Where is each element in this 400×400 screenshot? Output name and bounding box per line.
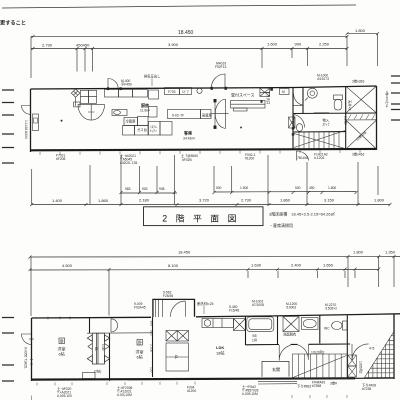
svg-text:1.630: 1.630: [251, 263, 262, 268]
svg-text:1.600: 1.600: [267, 42, 278, 47]
svg-text:F26/45: F26/45: [163, 294, 173, 298]
svg-text:2.180: 2.180: [139, 198, 150, 203]
kitchen counter: [202, 319, 246, 331]
svg-text:2.730: 2.730: [241, 198, 252, 203]
top rule line: [2, 5, 356, 8]
svg-text:1.16B: 1.16B: [344, 116, 348, 125]
svg-text:1.350: 1.350: [150, 344, 154, 352]
svg-text:B5: B5: [253, 334, 257, 338]
outer top wall left section: [32, 316, 152, 319]
left L extension: [31, 169, 33, 205]
svg-text:1坪: 1坪: [252, 338, 258, 343]
svg-text:1.860: 1.860: [280, 198, 291, 203]
stairs bottom plan: [292, 354, 347, 378]
toilet room door: [314, 112, 329, 114]
corridor door arcs: [293, 94, 304, 132]
outer left wall: [30, 89, 32, 152]
svg-text:#7/1008: #7/1008: [252, 303, 264, 307]
svg-text:18.450: 18.450: [178, 30, 194, 36]
bottom wall hatch ticks: [40, 150, 360, 155]
svg-text:下り#5B2: 下り#5B2: [297, 384, 311, 389]
svg-text:3.720: 3.720: [199, 198, 210, 203]
svg-text:3巻x463土6a: 3巻x463土6a: [385, 91, 389, 108]
X-brace top right: [346, 86, 377, 113]
room1 name plate: [59, 338, 65, 344]
closet room1: [87, 333, 153, 364]
dim labels top: [42, 28, 366, 48]
column dots top plan: [61, 120, 63, 122]
svg-text:500: 500: [295, 186, 301, 190]
svg-text:ｷｯﾁﾝ: ｷｯﾁﾝ: [150, 128, 157, 133]
middle closet with X cells: [166, 331, 189, 372]
svg-text:1.350: 1.350: [385, 250, 396, 255]
svg-text:3巻#: 3巻#: [330, 381, 337, 386]
svg-text:更すること: 更すること: [0, 19, 26, 27]
svg-text:8.100: 8.100: [168, 263, 179, 268]
svg-text:卧: 卧: [60, 338, 64, 344]
svg-text:4/15173: 4/15173: [317, 77, 329, 81]
svg-text:6帖: 6帖: [137, 354, 143, 360]
washbasin circle: [305, 88, 343, 110]
reception swing lens: [215, 99, 225, 129]
right room door arc: [352, 344, 369, 361]
svg-text:2.250: 2.250: [319, 42, 330, 47]
window ticks top wall left section: [48, 316, 70, 319]
outer right wall: [376, 86, 378, 150]
window marks left wall: [30, 360, 33, 365]
segment dim line: [31, 48, 347, 50]
svg-text:洗面脱衣: 洗面脱衣: [283, 332, 297, 337]
porch inner dividers: [156, 299, 186, 317]
svg-text:排気圧出し: 排気圧出し: [144, 74, 160, 79]
svg-text:卧: 卧: [138, 339, 142, 345]
fridge boxes right column: [124, 118, 138, 126]
svg-text:1.650: 1.650: [323, 263, 334, 268]
svg-text:2階平面図: 2階平面図: [162, 214, 245, 224]
svg-text:平F450: 平F450: [121, 83, 132, 87]
svg-text:#-00|.10M: #-00|.10M: [117, 393, 132, 397]
svg-text:/10003: /10003: [286, 306, 296, 310]
svg-text:450450: 450450: [76, 43, 90, 48]
svg-text:泉蔵庫: 泉蔵庫: [202, 113, 213, 118]
svg-text:CL: CL: [174, 355, 178, 359]
svg-text:450: 450: [309, 186, 315, 190]
porch protrusion: [153, 299, 195, 317]
svg-text:F703: F703: [168, 90, 176, 94]
svg-text:150: 150: [150, 367, 154, 373]
reception counter: [212, 88, 290, 129]
outer top wall: [31, 86, 377, 89]
svg-text:1.860: 1.860: [98, 198, 109, 203]
svg-text:9-03･7F: 9-03･7F: [172, 114, 184, 118]
svg-text:983: 983: [125, 187, 131, 191]
lower middle ticks: [30, 203, 391, 206]
outer right wall: [393, 314, 395, 379]
outer top wall right section: [196, 314, 400, 317]
X-brace bottom right: [346, 114, 377, 149]
svg-text:2,730: 2,730: [42, 43, 53, 48]
total dim line 18.450: [31, 35, 347, 37]
svg-text:#1200: #1200: [245, 157, 254, 161]
exterior door arc bottom: [297, 151, 309, 161]
svg-text:3巻x463: 3巻x463: [352, 152, 364, 157]
svg-text:920: 920: [150, 330, 154, 336]
svg-text:4'-5: 4'-5: [369, 347, 375, 351]
bench box at bottom wall room1: [83, 373, 96, 379]
svg-text:下り天井: 下り天井: [266, 91, 271, 105]
svg-text:#7238: #7238: [362, 387, 371, 391]
svg-text:3.900: 3.900: [168, 42, 179, 47]
kitchen left column equipment: [149, 88, 212, 136]
svg-text:#F02B: #F02B: [182, 158, 193, 162]
bottom wall hatch ticks bottom plan: [32, 382, 348, 400]
svg-text:2.400: 2.400: [291, 263, 302, 268]
svg-text:#-005.10M: #-005.10M: [242, 392, 258, 396]
svg-text:3階床面積 18.45×3.5-2.15=64.26㎡: 3階床面積 18.45×3.5-2.15=64.26㎡: [269, 211, 335, 217]
svg-text:18帖: 18帖: [216, 350, 224, 356]
svg-text:6帖: 6帖: [59, 351, 65, 357]
kitchen top counters: [81, 90, 89, 96]
svg-text:客席: 客席: [183, 130, 192, 136]
svg-text:1.400: 1.400: [52, 198, 63, 203]
door arc on top wall left (swing outside): [108, 74, 225, 89]
svg-text:断熱材t=25: 断熱材t=25: [197, 301, 214, 306]
svg-text:11.6m²: 11.6m²: [140, 109, 151, 113]
WC: [332, 321, 347, 330]
washer pan X box: [234, 319, 246, 331]
svg-text:900: 900: [295, 42, 302, 47]
svg-text:#-1204: #-1204: [314, 156, 324, 160]
svg-text:F92F13: F92F13: [215, 65, 227, 69]
svg-text:4.500: 4.500: [62, 263, 73, 268]
interior walls bottom plan: [90, 315, 351, 381]
svg-text:1.800: 1.800: [328, 186, 336, 190]
sink with oval: [112, 110, 127, 116]
extension ticks from plan bottom: [121, 155, 175, 205]
left small cabinet: [33, 114, 39, 131]
svg-text:1ﾄﾞｱ: 1ﾄﾞｱ: [182, 89, 189, 94]
dim ticks upper: [32, 32, 380, 38]
svg-text:天井×2: 天井×2: [348, 100, 353, 111]
small box with X on wall: [289, 117, 296, 128]
stepped stair grid bottom right: [365, 331, 395, 378]
boxes right of entry: [260, 88, 270, 96]
bathroom walls: [246, 316, 278, 345]
upper middle dim line: [121, 192, 356, 194]
kitchen island: rotated square with X: [71, 89, 148, 135]
genkan step outline: [262, 361, 289, 377]
left entry door arc: [22, 106, 31, 115]
toilet: [334, 95, 343, 100]
room1 door arc (left wall, swings out): [21, 334, 34, 344]
wall boxes along top: [165, 88, 180, 95]
middle dim labels: [52, 186, 385, 203]
right edge marks: [391, 76, 400, 120]
svg-text:900: 900: [150, 321, 154, 327]
svg-text:3.150: 3.150: [324, 198, 335, 203]
room2 double door arcs top: [111, 319, 118, 332]
svg-text:18.450: 18.450: [178, 250, 191, 255]
svg-text:・客席清掃用: ・客席清掃用: [269, 222, 293, 228]
bathtub horizontal: [247, 317, 274, 332]
svg-text:F15/45: F15/45: [229, 309, 239, 313]
svg-text:CL: CL: [94, 347, 98, 351]
svg-text:M: M: [282, 90, 285, 94]
svg-text:玄関: 玄関: [272, 366, 280, 372]
svg-text:908: 908: [159, 187, 165, 191]
outer bottom wall thick: [32, 378, 356, 379]
svg-text:903: 903: [142, 187, 148, 191]
dim ticks lower: [32, 47, 349, 50]
door jamb blocks: [270, 87, 273, 90]
svg-text:1035用2: 1035用2: [359, 361, 363, 374]
outer left wall: [31, 318, 33, 381]
svg-text:500: 500: [216, 186, 222, 190]
svg-text:#4202L 135: #4202L 135: [120, 161, 137, 165]
hall door arcs: [279, 345, 308, 361]
fan-shaped counter: [78, 105, 105, 120]
svg-text:受付スペース: 受付スペース: [231, 92, 255, 98]
stairs top plan: [294, 131, 345, 150]
svg-text:#1200: #1200: [187, 389, 196, 393]
svg-text:#7558: #7558: [312, 384, 321, 388]
svg-text:#-005.100: #-005.100: [57, 394, 72, 398]
svg-text:1-1418 A004: 1-1418 A004: [24, 120, 28, 139]
svg-text:9-0055 T1A2t1: 9-0055 T1A2t1: [24, 347, 28, 369]
bifold door triangles: [87, 335, 109, 341]
svg-text:ガス台: ガス台: [137, 127, 148, 132]
interior walls right section: [293, 86, 377, 150]
svg-text:1.800: 1.800: [353, 250, 364, 255]
svg-text:3巻x363: 3巻x363: [352, 79, 364, 84]
svg-text:1.800: 1.800: [374, 198, 385, 203]
outer bottom wall thick: [31, 149, 377, 150]
svg-text:/1503×2: /1503×2: [325, 307, 337, 311]
svg-text:1.800: 1.800: [355, 28, 366, 33]
svg-text:F92A45: F92A45: [134, 306, 146, 310]
svg-text:1.500: 1.500: [240, 186, 248, 190]
svg-text:ｽﾃｯﾌﾟ: ｽﾃｯﾌﾟ: [323, 122, 331, 127]
svg-text:LDK: LDK: [216, 345, 224, 350]
left edge marks: [2, 90, 14, 163]
svg-text:7B1#45: 7B1#45: [297, 156, 309, 160]
svg-text:#F208: #F208: [56, 157, 66, 161]
entrance step lines outside: [258, 381, 297, 384]
top wall counters mid: [105, 90, 119, 98]
svg-text:9-180: 9-180: [101, 344, 105, 351]
svg-text:34.43m²: 34.43m²: [183, 137, 196, 141]
upper middle ticks: [120, 191, 358, 194]
svg-text:厨房: 厨房: [141, 102, 149, 108]
small X boxes right strip: [348, 355, 357, 377]
washroom: [283, 317, 318, 332]
room2 name plate: [137, 340, 143, 346]
extension lines down to plan: [77, 49, 93, 72]
svg-text:冷蔵庫: 冷蔵庫: [126, 119, 137, 124]
lower middle dim line: [32, 204, 390, 206]
svg-text:WC: WC: [324, 327, 330, 331]
